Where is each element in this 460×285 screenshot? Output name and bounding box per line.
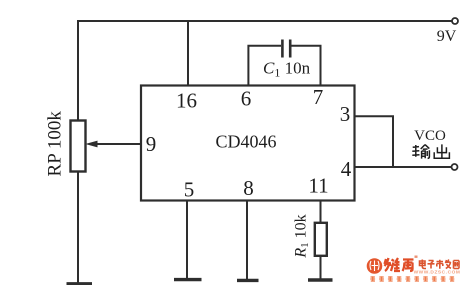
ground xyxy=(67,282,93,285)
svg-text:6: 6 xyxy=(241,87,252,111)
wire R1 to ground xyxy=(320,256,322,279)
svg-text:WWW.DZSC.COM: WWW.DZSC.COM xyxy=(414,269,460,275)
ground xyxy=(174,278,202,281)
wire pin 5 xyxy=(186,201,188,279)
ground xyxy=(237,279,259,282)
capacitor C1 loop wires xyxy=(248,46,281,86)
potentiometer RP 100k xyxy=(71,121,86,172)
watermark TM xyxy=(415,256,418,258)
watermark logo circle xyxy=(367,258,383,274)
svg-text:7: 7 xyxy=(313,85,324,109)
svg-text:9V: 9V xyxy=(437,28,457,45)
wire pin 8 xyxy=(246,201,248,280)
svg-text:3: 3 xyxy=(340,102,351,126)
svg-text:11: 11 xyxy=(308,174,328,198)
ground xyxy=(308,278,333,281)
svg-text:8: 8 xyxy=(243,176,254,200)
svg-text:C1 10n: C1 10n xyxy=(263,59,311,80)
power rail 9V wire xyxy=(78,20,452,22)
wire pin 11 xyxy=(320,201,322,224)
watermark slogan row xyxy=(370,276,454,281)
watermark text 电子市场网 (hand drawn) xyxy=(420,260,460,269)
9V terminal xyxy=(452,18,458,24)
wire xyxy=(77,171,79,283)
RP wiper arrow xyxy=(85,141,141,148)
wire pin 3 xyxy=(355,116,394,167)
svg-text:5: 5 xyxy=(184,178,195,202)
svg-text:9: 9 xyxy=(146,132,157,156)
svg-text:4: 4 xyxy=(341,157,352,181)
capacitor C1 plates xyxy=(281,40,284,58)
输 left radical 车 xyxy=(412,145,419,157)
输 right part 俞 xyxy=(421,145,430,159)
svg-text:RP 100k: RP 100k xyxy=(45,111,66,177)
svg-text:CD4046: CD4046 xyxy=(215,132,276,152)
label 输出 (hand drawn glyphs) xyxy=(412,144,449,158)
svg-text:R1 10k: R1 10k xyxy=(293,214,312,258)
wire xyxy=(77,20,79,121)
svg-text:VCO: VCO xyxy=(414,128,446,144)
resistor R1 body xyxy=(315,223,327,256)
IC U1 CD4046 body xyxy=(141,86,355,201)
wire pin 16 to rail xyxy=(187,21,189,86)
watermark text 维库 (hand drawn) xyxy=(385,258,414,271)
wire pin 4 to output xyxy=(355,166,452,168)
svg-text:16: 16 xyxy=(176,89,197,113)
出 xyxy=(434,144,449,158)
VCO output terminal xyxy=(452,164,458,170)
